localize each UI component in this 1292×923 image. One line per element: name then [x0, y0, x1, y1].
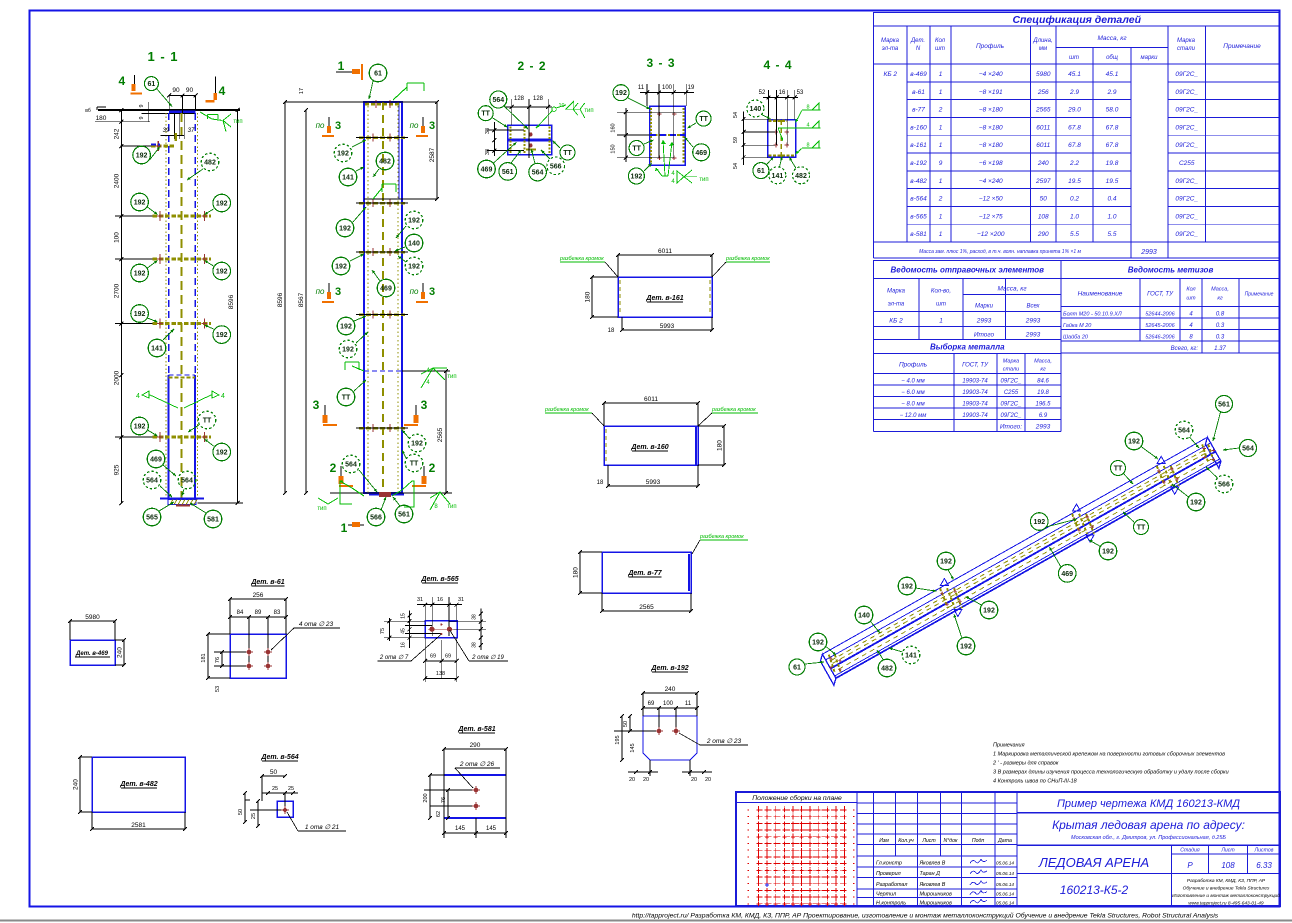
svg-text:469: 469: [695, 150, 707, 157]
svg-text:290: 290: [470, 742, 481, 749]
svg-text:Масса,: Масса,: [1211, 287, 1229, 293]
svg-text:61: 61: [374, 71, 382, 78]
svg-text:2587: 2587: [429, 147, 436, 162]
svg-text:564: 564: [181, 478, 193, 485]
svg-text:2 ' - размеры для справок: 2 ' - размеры для справок: [992, 761, 1059, 767]
svg-text:КБ 2: КБ 2: [889, 318, 903, 325]
svg-text:Лист: Лист: [921, 838, 936, 844]
svg-text:69: 69: [648, 701, 655, 707]
svg-text:69: 69: [430, 654, 436, 660]
svg-text:Марка: Марка: [887, 289, 906, 295]
svg-text:59: 59: [733, 137, 739, 143]
svg-text:100: 100: [662, 85, 673, 91]
svg-text:1: 1: [341, 521, 348, 535]
svg-text:16: 16: [401, 642, 407, 648]
svg-text:Н.контроль: Н.контроль: [876, 900, 906, 906]
svg-text:192: 192: [136, 153, 148, 160]
svg-text:0.2: 0.2: [1070, 196, 1079, 203]
svg-text:180: 180: [717, 440, 724, 451]
svg-text:2 - 2: 2 - 2: [517, 59, 546, 73]
svg-text:52645-2006: 52645-2006: [1145, 323, 1175, 329]
svg-text:16: 16: [437, 597, 443, 603]
svg-text:шт: шт: [936, 302, 946, 308]
svg-text:Дата: Дата: [997, 838, 1012, 844]
svg-text:в-192: в-192: [910, 160, 927, 167]
svg-text:Масса, кг: Масса, кг: [997, 286, 1027, 293]
svg-text:20: 20: [643, 777, 649, 783]
svg-text:2993: 2993: [1035, 424, 1051, 431]
svg-text:5.5: 5.5: [1070, 231, 1079, 238]
svg-text:61: 61: [757, 168, 765, 175]
svg-text:50: 50: [623, 721, 629, 727]
svg-text:192: 192: [134, 271, 146, 278]
svg-text:45: 45: [401, 628, 407, 634]
svg-text:180: 180: [573, 567, 580, 578]
svg-text:1: 1: [939, 213, 943, 220]
svg-text:18: 18: [608, 328, 615, 334]
svg-text:2993: 2993: [1140, 249, 1157, 256]
svg-text:05.06.14: 05.06.14: [996, 900, 1014, 905]
svg-text:19903-74: 19903-74: [962, 402, 988, 408]
svg-text:8: 8: [806, 143, 809, 149]
svg-text:шт: шт: [1069, 55, 1079, 61]
svg-text:тип: тип: [317, 506, 326, 512]
svg-text:561: 561: [398, 512, 410, 519]
svg-text:19.5: 19.5: [1068, 178, 1081, 185]
svg-text:С255: С255: [1179, 160, 1195, 167]
svg-text:564: 564: [1242, 446, 1254, 453]
svg-text:192: 192: [615, 90, 627, 97]
svg-text:67.8: 67.8: [1068, 142, 1081, 149]
svg-text:ТТ: ТТ: [203, 418, 212, 425]
svg-text:561: 561: [1218, 402, 1230, 409]
svg-text:− 8.0 мм: − 8.0 мм: [901, 402, 924, 408]
svg-text:3: 3: [313, 398, 320, 412]
svg-text:N°док: N°док: [943, 838, 958, 844]
svg-text:53: 53: [797, 90, 804, 96]
svg-text:108: 108: [1221, 861, 1235, 870]
svg-text:3: 3: [421, 398, 428, 412]
svg-text:469: 469: [481, 167, 493, 174]
svg-text:−6 ×198: −6 ×198: [979, 160, 1003, 167]
svg-text:38: 38: [472, 642, 478, 648]
svg-text:Дет. в-469: Дет. в-469: [75, 651, 109, 657]
svg-text:шт: шт: [935, 46, 945, 52]
svg-text:Спецификация деталей: Спецификация деталей: [1012, 14, 1141, 26]
svg-text:192: 192: [960, 644, 972, 651]
svg-text:6.33: 6.33: [1256, 861, 1272, 870]
svg-text:29.0: 29.0: [1067, 107, 1081, 114]
svg-text:482: 482: [795, 173, 807, 180]
svg-text:в-565: в-565: [910, 213, 927, 220]
svg-text:196.5: 196.5: [1035, 402, 1051, 408]
svg-text:20: 20: [629, 777, 635, 783]
svg-text:192: 192: [1033, 519, 1045, 526]
svg-text:2 отв ∅ 19: 2 отв ∅ 19: [471, 654, 504, 661]
svg-text:11: 11: [685, 701, 692, 707]
svg-text:2565: 2565: [639, 604, 654, 611]
svg-text:09Г2С_: 09Г2С_: [1001, 379, 1022, 385]
svg-text:Итого: Итого: [974, 332, 995, 339]
svg-text:Мирошников: Мирошников: [920, 900, 952, 906]
svg-text:05.06.14: 05.06.14: [996, 892, 1014, 897]
svg-text:Проверил: Проверил: [876, 871, 901, 877]
svg-text:31: 31: [417, 597, 423, 603]
svg-text:19.5: 19.5: [1106, 178, 1119, 185]
svg-text:−8 ×180: −8 ×180: [979, 142, 1003, 149]
svg-text:http://tapproject.ru/ Разрабо: http://tapproject.ru/ Разработка КМ, КМД…: [632, 912, 1219, 920]
svg-text:Дет. в-581: Дет. в-581: [457, 726, 495, 733]
svg-text:Подп: Подп: [972, 838, 985, 844]
svg-text:ТТ: ТТ: [699, 116, 708, 123]
svg-text:1: 1: [939, 124, 943, 131]
svg-text:кг: кг: [1217, 296, 1223, 302]
svg-text:Изготовление и монтаж металлок: Изготовление и монтаж металлоконструкций: [1172, 892, 1280, 899]
svg-text:−8 ×180: −8 ×180: [979, 124, 1003, 131]
svg-text:45.1: 45.1: [1068, 71, 1081, 78]
svg-text:8596: 8596: [277, 292, 284, 307]
svg-text:общ: общ: [1106, 55, 1118, 61]
svg-text:Примечания: Примечания: [993, 743, 1025, 749]
svg-text:ТТ: ТТ: [632, 146, 641, 153]
svg-text:0.3: 0.3: [1216, 323, 1225, 329]
svg-text:45.1: 45.1: [1106, 71, 1119, 78]
svg-text:192: 192: [812, 640, 824, 647]
svg-text:25: 25: [251, 813, 257, 819]
svg-text:19.8: 19.8: [1037, 390, 1049, 396]
svg-text:67.8: 67.8: [1106, 124, 1119, 131]
svg-text:Масса, кг: Масса, кг: [1097, 35, 1127, 42]
svg-text:61: 61: [148, 81, 156, 88]
svg-text:1.0: 1.0: [1070, 213, 1079, 220]
svg-text:в-482: в-482: [910, 178, 927, 185]
svg-text:100: 100: [113, 232, 120, 243]
svg-text:10: 10: [558, 103, 564, 109]
svg-text:141: 141: [151, 346, 163, 353]
svg-text:−12 ×200: −12 ×200: [977, 231, 1005, 238]
svg-text:Дет. в-564: Дет. в-564: [260, 754, 298, 761]
svg-text:тип: тип: [447, 504, 456, 510]
svg-text:Болт М20 - 50.10.9.ХЛ: Болт М20 - 50.10.9.ХЛ: [1063, 312, 1122, 318]
svg-text:145: 145: [455, 826, 466, 832]
svg-text:Кол: Кол: [1186, 287, 1195, 293]
svg-text:1: 1: [338, 59, 345, 73]
svg-text:3: 3: [429, 286, 435, 298]
svg-text:2993: 2993: [1025, 318, 1041, 325]
svg-text:0.8: 0.8: [1216, 312, 1225, 318]
svg-text:мм: мм: [1039, 46, 1047, 52]
svg-text:Дет. в-482: Дет. в-482: [119, 781, 157, 788]
svg-text:4: 4: [118, 74, 125, 88]
svg-text:в-160: в-160: [910, 124, 927, 131]
svg-text:140: 140: [750, 106, 762, 113]
svg-text:192: 192: [1190, 500, 1202, 507]
svg-text:192: 192: [134, 424, 146, 431]
svg-text:− 6.0 мм: − 6.0 мм: [901, 390, 924, 396]
svg-text:469: 469: [150, 457, 162, 464]
svg-text:тип: тип: [699, 177, 708, 183]
svg-text:Гайка М 20: Гайка М 20: [1063, 322, 1092, 329]
svg-text:Марки: Марки: [975, 304, 994, 310]
svg-text:05.06.14: 05.06.14: [996, 871, 1014, 876]
svg-text:192: 192: [408, 264, 420, 271]
svg-text:192: 192: [940, 559, 952, 566]
svg-text:Марка: Марка: [1177, 38, 1196, 44]
svg-text:1.37: 1.37: [1214, 346, 1226, 352]
svg-text:54: 54: [733, 163, 739, 169]
svg-text:4: 4: [221, 393, 225, 400]
svg-text:19: 19: [688, 85, 695, 91]
svg-text:160213-К5-2: 160213-К5-2: [1060, 883, 1129, 897]
svg-text:581: 581: [207, 517, 219, 524]
svg-text:09Г2С_: 09Г2С_: [1175, 213, 1198, 220]
svg-text:2: 2: [330, 461, 337, 475]
svg-text:Масса зам. плюс 1%, расход, в: Масса зам. плюс 1%, расход, в т.ч. волн.…: [919, 249, 1081, 255]
svg-text:256: 256: [1037, 89, 1049, 96]
svg-text:50: 50: [270, 769, 278, 776]
svg-text:09Г2С_: 09Г2С_: [1001, 413, 1022, 419]
svg-text:Изм: Изм: [879, 838, 889, 844]
svg-text:5980: 5980: [85, 614, 100, 621]
svg-text:Дет. в-160: Дет. в-160: [630, 444, 668, 451]
svg-text:290: 290: [1037, 231, 1049, 238]
svg-text:20: 20: [691, 777, 697, 783]
svg-text:9: 9: [139, 116, 145, 119]
svg-text:52: 52: [759, 90, 766, 96]
svg-text:566: 566: [1218, 482, 1230, 489]
svg-text:240: 240: [1037, 160, 1049, 167]
svg-text:564: 564: [532, 170, 544, 177]
svg-text:Ведомость метизов: Ведомость метизов: [1128, 266, 1214, 275]
svg-text:15: 15: [401, 613, 407, 619]
svg-text:108: 108: [1038, 213, 1049, 220]
svg-text:192: 192: [340, 324, 352, 331]
svg-text:тип: тип: [447, 374, 456, 380]
svg-text:Стадия: Стадия: [1180, 848, 1200, 854]
svg-text:09Г2С_: 09Г2С_: [1175, 196, 1198, 203]
svg-text:192: 192: [134, 311, 146, 318]
svg-text:ТТ: ТТ: [1137, 525, 1146, 532]
svg-text:16: 16: [779, 90, 786, 96]
svg-text:09Г2С_: 09Г2С_: [1175, 71, 1198, 78]
svg-text:ГОСТ, ТУ: ГОСТ, ТУ: [962, 363, 989, 369]
svg-text:разбежка кромок: разбежка кромок: [711, 407, 756, 413]
svg-text:1: 1: [939, 89, 943, 96]
svg-text:90: 90: [172, 87, 180, 94]
svg-text:76: 76: [215, 657, 221, 663]
svg-text:4 отв ∅ 23: 4 отв ∅ 23: [299, 621, 334, 628]
svg-text:6.9: 6.9: [1039, 413, 1048, 419]
svg-text:ТТ: ТТ: [342, 395, 351, 402]
svg-text:9: 9: [939, 160, 943, 167]
svg-text:09Г2С_: 09Г2С_: [1175, 142, 1198, 149]
svg-text:КБ 2: КБ 2: [884, 71, 898, 78]
svg-text:по: по: [316, 121, 325, 130]
svg-text:140: 140: [408, 241, 420, 248]
svg-text:1: 1: [939, 231, 943, 238]
svg-text:5.5: 5.5: [1107, 231, 1116, 238]
svg-text:кг: кг: [1040, 367, 1046, 373]
svg-text:в-77: в-77: [912, 107, 925, 114]
svg-text:1: 1: [939, 318, 943, 325]
svg-text:67.8: 67.8: [1106, 142, 1119, 149]
svg-text:09Г2С_: 09Г2С_: [1175, 89, 1198, 96]
svg-text:Примечание: Примечание: [1245, 292, 1274, 298]
svg-text:181: 181: [201, 653, 207, 662]
svg-text:3: 3: [335, 120, 341, 132]
svg-text:Итого:: Итого:: [1000, 424, 1022, 431]
svg-text:в-469: в-469: [910, 71, 927, 78]
svg-text:www.tapproject.ru 8-495: www.tapproject.ru 8-495-643-01-49: [1188, 901, 1264, 907]
svg-text:75: 75: [380, 628, 386, 634]
svg-text:Ведомость отправочных элементо: Ведомость отправочных элементов: [891, 266, 1045, 275]
svg-text:192: 192: [216, 450, 228, 457]
svg-text:141: 141: [772, 173, 784, 180]
svg-text:84.6: 84.6: [1037, 379, 1049, 385]
svg-text:128: 128: [514, 96, 525, 102]
svg-text:90: 90: [186, 87, 194, 94]
svg-text:69: 69: [445, 654, 451, 660]
svg-text:100: 100: [663, 701, 674, 707]
svg-text:4: 4: [806, 123, 809, 129]
svg-text:Дет. в-192: Дет. в-192: [650, 665, 688, 672]
svg-text:Кол-во,: Кол-во,: [931, 289, 951, 295]
svg-text:шт: шт: [1186, 296, 1196, 302]
svg-text:2993: 2993: [976, 318, 992, 325]
svg-text:Примечание: Примечание: [1223, 43, 1261, 50]
svg-text:4 - 4: 4 - 4: [763, 58, 792, 72]
svg-text:128: 128: [533, 96, 544, 102]
svg-text:192: 192: [216, 332, 228, 339]
svg-text:240: 240: [117, 647, 124, 658]
svg-text:8: 8: [806, 105, 809, 111]
svg-text:С255: С255: [1004, 390, 1019, 396]
svg-text:469: 469: [1061, 571, 1073, 578]
svg-text:2 отв ∅ 7: 2 отв ∅ 7: [379, 654, 409, 661]
svg-text:11: 11: [638, 85, 645, 91]
svg-text:256: 256: [253, 592, 264, 599]
svg-text:2: 2: [938, 107, 943, 114]
svg-text:разбежка кромок: разбежка кромок: [699, 534, 744, 540]
svg-text:39: 39: [163, 128, 170, 134]
svg-text:Дет. в-61: Дет. в-61: [250, 579, 284, 586]
svg-text:в-581: в-581: [910, 231, 927, 238]
svg-text:Шайба 20: Шайба 20: [1063, 334, 1089, 341]
svg-text:в-564: в-564: [910, 196, 927, 203]
svg-text:Обучение и внедрение Tekla Str: Обучение и внедрение Tekla Structures: [1183, 886, 1270, 892]
svg-text:1.0: 1.0: [1107, 213, 1116, 220]
svg-text:141: 141: [342, 175, 354, 182]
svg-text:192: 192: [1102, 549, 1114, 556]
svg-text:−12 ×75: −12 ×75: [979, 213, 1003, 220]
svg-text:Профиль: Профиль: [899, 362, 928, 369]
svg-text:50: 50: [1040, 196, 1048, 203]
svg-text:192: 192: [901, 584, 913, 591]
svg-text:в-61: в-61: [912, 89, 925, 96]
svg-text:по: по: [410, 287, 419, 296]
svg-text:1: 1: [939, 178, 943, 185]
svg-text:2: 2: [429, 461, 436, 475]
svg-text:58.0: 58.0: [1106, 107, 1119, 114]
svg-text:1 - 1: 1 - 1: [147, 49, 178, 64]
svg-text:62: 62: [436, 811, 442, 817]
svg-text:564: 564: [1178, 428, 1190, 435]
svg-text:8567: 8567: [298, 292, 305, 307]
svg-text:ТТ: ТТ: [1114, 466, 1123, 473]
svg-text:Чертил: Чертил: [876, 892, 896, 898]
svg-text:9: 9: [139, 104, 145, 107]
svg-text:52644-2006: 52644-2006: [1145, 312, 1175, 318]
svg-text:2.9: 2.9: [1106, 89, 1116, 96]
svg-text:Дет. в-161: Дет. в-161: [645, 295, 683, 302]
svg-text:−12 ×50: −12 ×50: [979, 196, 1003, 203]
svg-text:в-161: в-161: [910, 142, 927, 149]
svg-text:05.06.14: 05.06.14: [996, 882, 1014, 887]
svg-text:ТТ: ТТ: [410, 461, 419, 468]
svg-text:192: 192: [411, 441, 423, 448]
svg-text:марки: марки: [1141, 55, 1159, 61]
svg-text:2597: 2597: [1035, 178, 1051, 185]
svg-text:25: 25: [272, 786, 278, 792]
svg-text:192: 192: [335, 264, 347, 271]
svg-text:N: N: [916, 46, 921, 52]
svg-text:140: 140: [858, 613, 870, 620]
svg-text:180: 180: [585, 291, 592, 302]
svg-text:разбежка кромок: разбежка кромок: [544, 407, 589, 413]
svg-text:Всего, кг:: Всего, кг:: [1171, 346, 1199, 352]
svg-text:3: 3: [429, 120, 435, 132]
svg-text:09Г2С_: 09Г2С_: [1175, 124, 1198, 131]
svg-text:Московская обл., г. Дмитров, у: Московская обл., г. Дмитров, ул. Професс…: [1071, 835, 1226, 841]
svg-text:2565: 2565: [437, 427, 444, 442]
svg-text:89: 89: [255, 610, 262, 616]
svg-text:20: 20: [705, 777, 711, 783]
svg-text:Дет. в-77: Дет. в-77: [627, 570, 662, 577]
svg-text:1: 1: [939, 71, 943, 78]
svg-text:стали: стали: [1177, 46, 1196, 52]
svg-text:− 4.0 мм: − 4.0 мм: [901, 379, 924, 385]
svg-text:0.3: 0.3: [1216, 335, 1225, 341]
svg-text:38: 38: [485, 128, 491, 134]
svg-text:эл-та: эл-та: [882, 46, 899, 52]
svg-text:17: 17: [299, 88, 305, 94]
svg-text:240: 240: [665, 686, 676, 693]
svg-text:−8 ×180: −8 ×180: [979, 107, 1003, 114]
svg-text:2 отв ∅ 26: 2 отв ∅ 26: [459, 761, 495, 768]
svg-text:6011: 6011: [644, 396, 658, 403]
svg-text:ГОСТ, ТУ: ГОСТ, ТУ: [1147, 292, 1174, 298]
svg-text:19903-74: 19903-74: [962, 413, 988, 419]
svg-text:Положение сборки на плане: Положение сборки на плане: [752, 794, 842, 802]
svg-text:Р: Р: [1187, 861, 1193, 870]
svg-text:38: 38: [472, 614, 478, 620]
svg-text:50: 50: [238, 809, 244, 815]
svg-text:192: 192: [983, 608, 995, 615]
svg-text:09Г2С_: 09Г2С_: [1001, 402, 1022, 408]
svg-text:Пример чертежа КМД 160213-КМД: Пример чертежа КМД 160213-КМД: [1057, 798, 1240, 810]
svg-text:Марка: Марка: [1003, 359, 1019, 365]
svg-text:192: 192: [408, 218, 420, 225]
svg-text:09Г2С_: 09Г2С_: [1175, 178, 1198, 185]
svg-text:37: 37: [188, 128, 195, 134]
svg-text:−4 ×240: −4 ×240: [979, 71, 1003, 78]
svg-text:566: 566: [550, 163, 562, 170]
svg-text:1 Маркировка металлической кр: 1 Маркировка металлической крепежом на п…: [993, 751, 1225, 758]
svg-text:Всех: Всех: [1026, 304, 1040, 310]
svg-text:по: по: [410, 121, 419, 130]
svg-text:195: 195: [615, 735, 621, 744]
svg-text:разбежка кромок: разбежка кромок: [725, 256, 770, 262]
